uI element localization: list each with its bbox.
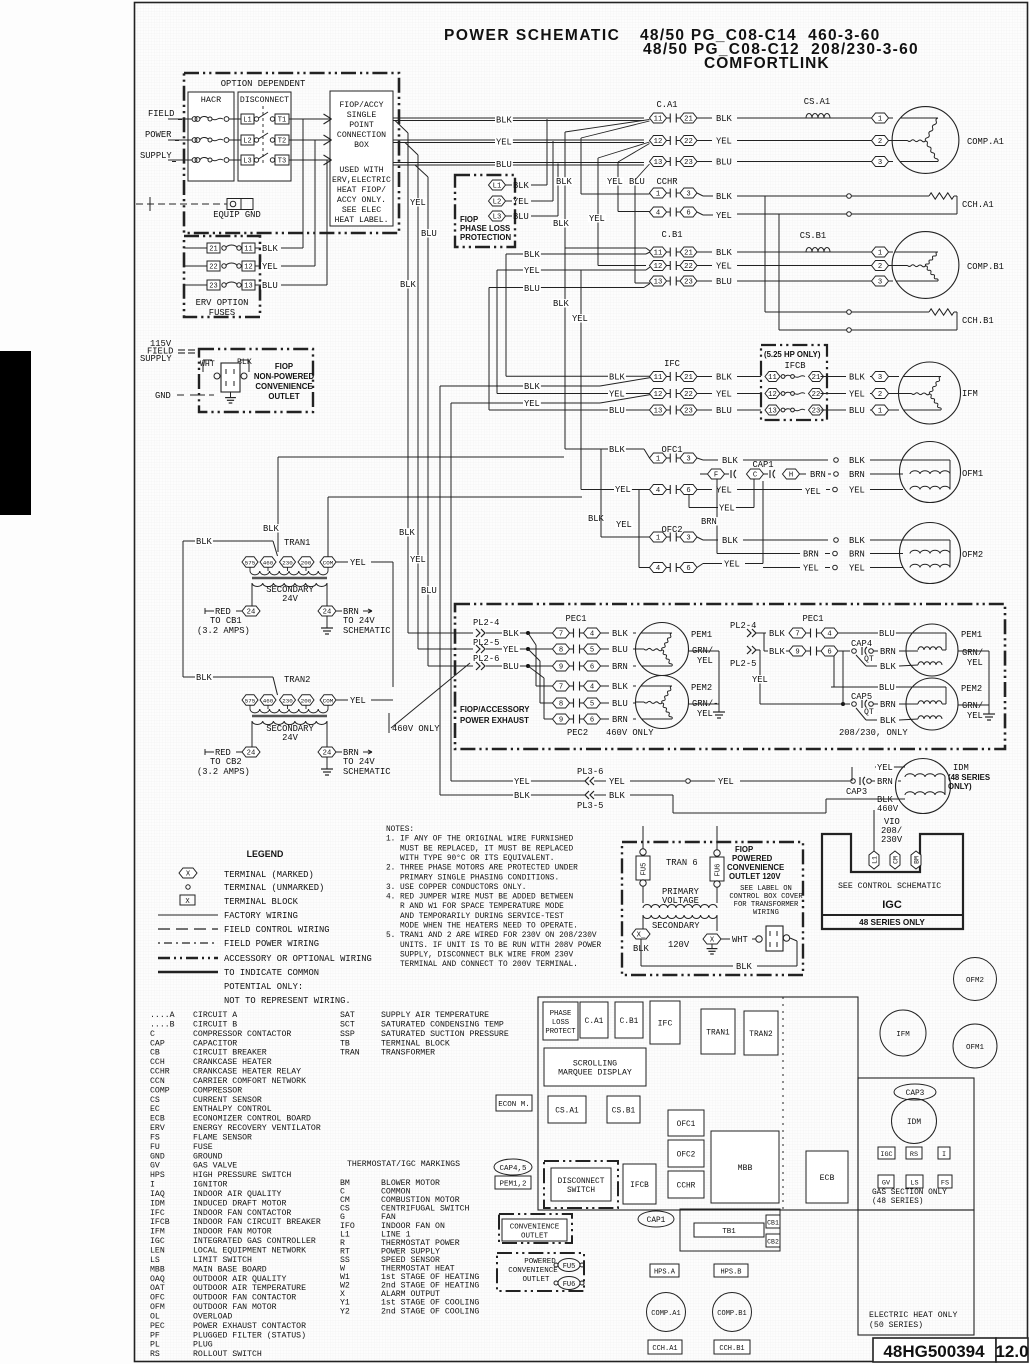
svg-text:6: 6 — [686, 210, 690, 218]
svg-text:CONVENIENCE: CONVENIENCE — [255, 382, 312, 391]
svg-text:BLK: BLK — [722, 536, 739, 546]
svg-text:CAP3: CAP3 — [846, 787, 867, 797]
wire BLU main — [393, 162, 644, 164]
wire BLK 460 tap feed — [278, 456, 564, 458]
svg-text:PLUGGED FILTER (STATUS): PLUGGED FILTER (STATUS) — [193, 1330, 306, 1340]
svg-text:WHT: WHT — [732, 935, 748, 945]
svg-text:T3: T3 — [278, 158, 286, 166]
wire YEL from TRAN2 COM — [336, 699, 349, 701]
svg-text:C.A1: C.A1 — [656, 100, 677, 110]
IFCB breaker box — [761, 345, 827, 420]
svg-text:PL2-4: PL2-4 — [473, 618, 499, 628]
scrolling marquee display — [544, 1048, 646, 1086]
svg-text:CCHR: CCHR — [656, 177, 678, 187]
wire BLK 460V jog to IDM — [672, 795, 674, 813]
IFM circle layout — [880, 1010, 926, 1056]
svg-text:ENTHALPY CONTROL: ENTHALPY CONTROL — [193, 1105, 272, 1114]
title block — [873, 1338, 996, 1362]
svg-text:TO INDICATE COMMON: TO INDICATE COMMON — [224, 968, 319, 978]
svg-text:FIELD POWER WIRING: FIELD POWER WIRING — [224, 939, 319, 949]
svg-text:SEE LABEL ON: SEE LABEL ON — [740, 885, 792, 893]
svg-text:24V: 24V — [282, 733, 299, 743]
svg-text:YEL: YEL — [350, 558, 366, 568]
OFC2 contact 4/6 — [650, 563, 667, 573]
HPS.B box — [714, 1264, 748, 1277]
wire YEL drop to PL2-5 — [405, 143, 418, 156]
svg-text:TRAN2: TRAN2 — [284, 675, 310, 685]
svg-text:BRN: BRN — [880, 647, 896, 657]
arrowheads at connection box — [324, 114, 332, 119]
svg-text:YEL: YEL — [524, 266, 540, 276]
svg-text:ECON M.: ECON M. — [498, 1101, 530, 1109]
wire YEL CCHR vertical v618 — [617, 162, 619, 212]
svg-text:BLU: BLU — [879, 683, 895, 693]
svg-text:C.B1: C.B1 — [661, 230, 682, 240]
svg-text:L3: L3 — [493, 214, 502, 222]
wires T to ERV fuses — [302, 119, 304, 248]
FIOP/ACCY single point connection box — [330, 91, 393, 226]
svg-text:22: 22 — [684, 391, 693, 399]
svg-text:INDOOR FAN MOTOR: INDOOR FAN MOTOR — [193, 1228, 272, 1237]
svg-text:OUTLET 120V: OUTLET 120V — [729, 872, 781, 881]
svg-text:TO 24V: TO 24V — [343, 616, 375, 626]
svg-text:3: 3 — [878, 279, 882, 287]
svg-text:COM: COM — [323, 560, 334, 567]
svg-text:YEL: YEL — [503, 645, 519, 655]
svg-text:GND: GND — [150, 1152, 165, 1161]
wire YEL from TRAN1 COM — [336, 561, 349, 563]
svg-text:L2: L2 — [493, 199, 502, 207]
power exhaust motor PEM2 460V — [636, 676, 689, 729]
svg-text:6: 6 — [590, 717, 594, 725]
svg-text:CS: CS — [150, 1096, 160, 1105]
svg-text:BLK: BLK — [514, 791, 531, 801]
crankcase heater CCH.A1 — [697, 193, 703, 196]
svg-text:OUTDOOR FAN MOTOR: OUTDOOR FAN MOTOR — [193, 1303, 277, 1312]
svg-text:BRN: BRN — [849, 470, 865, 480]
svg-text:SCROLLING: SCROLLING — [573, 1060, 617, 1069]
svg-text:13: 13 — [768, 408, 777, 416]
svg-text:IFM: IFM — [150, 1228, 165, 1237]
svg-text:THERMOSTAT/IGC MARKINGS: THERMOSTAT/IGC MARKINGS — [347, 1159, 460, 1169]
C.B1 layout box — [615, 1002, 643, 1038]
svg-text:6: 6 — [827, 649, 831, 657]
wire BLK to TRAN2 — [183, 676, 273, 678]
svg-text:BLK: BLK — [399, 528, 416, 538]
svg-text:BLK: BLK — [553, 219, 570, 229]
svg-text:BRN: BRN — [877, 777, 893, 787]
induced draft motor IDM — [896, 759, 951, 814]
PL2 plug labels left — [472, 618, 500, 626]
svg-text:BLK: BLK — [262, 244, 279, 254]
svg-text:OFM2: OFM2 — [962, 550, 983, 560]
svg-text:IDM: IDM — [953, 763, 969, 773]
svg-text:INDOOR AIR QUALITY: INDOOR AIR QUALITY — [193, 1190, 282, 1199]
TRAN2 24V terminals — [205, 751, 214, 753]
wire BLK from above to TRAN1 — [277, 457, 279, 552]
OFM2 BRN wire — [717, 553, 800, 555]
svg-text:YEL: YEL — [967, 658, 983, 668]
HPS.A box — [650, 1264, 679, 1277]
svg-text:OFC1: OFC1 — [661, 445, 682, 455]
wire YEL main — [393, 139, 644, 141]
svg-text:BLU: BLU — [496, 160, 512, 170]
svg-text:BLK: BLK — [196, 673, 213, 683]
svg-text:TO 24V: TO 24V — [343, 757, 375, 767]
svg-text:ECB: ECB — [150, 1115, 165, 1124]
svg-text:PHASE: PHASE — [550, 1010, 572, 1018]
svg-text:POWER EXHAUST CONTACTOR: POWER EXHAUST CONTACTOR — [193, 1322, 306, 1331]
svg-text:CAP: CAP — [150, 1039, 165, 1048]
wire BLK PL3-5 — [440, 794, 585, 796]
gas section box — [858, 1078, 974, 1210]
svg-text:IFC: IFC — [664, 359, 680, 369]
svg-text:QT: QT — [864, 708, 874, 717]
terminal 1 2 3 comp A1 — [872, 113, 889, 123]
OFM1 circle layout — [953, 1024, 997, 1068]
svg-text:48HG500394: 48HG500394 — [883, 1342, 985, 1361]
svg-text:FU6: FU6 — [563, 1281, 576, 1289]
OFC1 layout box — [668, 1110, 704, 1136]
svg-text:BM: BM — [913, 856, 920, 864]
terminal 1 2 3 comp B1 — [872, 247, 889, 257]
svg-text:NOT TO REPRESENT WIRING.: NOT TO REPRESENT WIRING. — [224, 996, 351, 1006]
svg-text:COMP.B1: COMP.B1 — [717, 1310, 746, 1318]
svg-text:H: H — [789, 472, 793, 480]
svg-text:OUTDOOR FAN CONTACTOR: OUTDOOR FAN CONTACTOR — [193, 1294, 296, 1303]
svg-text:GV: GV — [882, 1180, 891, 1188]
svg-text:21: 21 — [684, 374, 693, 382]
svg-text:OFM: OFM — [150, 1303, 165, 1312]
equip gnd — [136, 203, 227, 205]
svg-text:23: 23 — [684, 408, 693, 416]
svg-text:8: 8 — [559, 701, 563, 709]
svg-text:YEL: YEL — [697, 656, 713, 666]
svg-text:BLU: BLU — [421, 229, 437, 239]
PEC2 drop wires — [528, 633, 536, 645]
svg-text:FIOP: FIOP — [275, 362, 293, 371]
svg-text:FS: FS — [941, 1180, 949, 1188]
svg-text:ECONOMIZER CONTROL BOARD: ECONOMIZER CONTROL BOARD — [193, 1115, 311, 1124]
svg-text:YEL: YEL — [615, 485, 631, 495]
svg-text:120V: 120V — [668, 940, 690, 950]
svg-text:OFC2: OFC2 — [677, 1152, 696, 1160]
svg-text:24V: 24V — [282, 594, 299, 604]
IFC contact 12/22 — [608, 390, 626, 398]
svg-text:24: 24 — [323, 609, 332, 617]
ERV fuse 23-13 — [184, 284, 207, 286]
svg-text:BLK: BLK — [716, 114, 733, 124]
ERV fuse 22-12 — [184, 265, 207, 267]
svg-text:CCH.A1: CCH.A1 — [652, 1345, 677, 1353]
svg-text:OFC: OFC — [150, 1294, 165, 1303]
FS small box — [938, 1175, 952, 1188]
svg-text:BLU: BLU — [716, 158, 732, 168]
terminal X_ — [632, 929, 650, 939]
svg-text:YEL: YEL — [849, 390, 865, 400]
wire BLK outlet return — [640, 939, 642, 966]
DISCONNECT box — [238, 92, 291, 181]
svg-text:PHASE LOSS: PHASE LOSS — [460, 224, 510, 233]
IFCB pole 11/21 — [765, 372, 780, 382]
IDM circle layout — [892, 1099, 937, 1144]
svg-text:2: 2 — [878, 263, 882, 271]
svg-text:23: 23 — [812, 408, 821, 416]
svg-text:BLK: BLK — [769, 647, 786, 657]
svg-text:CCH.B1: CCH.B1 — [719, 1345, 744, 1353]
supply row L3/T3 — [168, 159, 192, 161]
svg-text:YEL: YEL — [262, 262, 278, 272]
svg-text:SUPPLY AIR TEMPERATURE: SUPPLY AIR TEMPERATURE — [381, 1011, 489, 1020]
legend field control wiring — [158, 928, 218, 930]
svg-text:POWER SCHEMATIC: POWER SCHEMATIC — [444, 27, 620, 44]
svg-text:IFM: IFM — [896, 1031, 910, 1039]
svg-text:11: 11 — [654, 116, 663, 124]
svg-text:PEC1: PEC1 — [565, 614, 586, 624]
svg-text:LOCAL EQUIPMENT NETWORK: LOCAL EQUIPMENT NETWORK — [193, 1247, 306, 1256]
svg-text:C.B1: C.B1 — [620, 1018, 639, 1026]
svg-text:ERV: ERV — [150, 1124, 165, 1133]
supply row L1/T1 — [168, 118, 192, 120]
svg-text:CIRCUIT B: CIRCUIT B — [193, 1020, 237, 1029]
svg-text:EC: EC — [150, 1105, 160, 1114]
svg-text:CAP1: CAP1 — [647, 1217, 666, 1225]
svg-text:BLK: BLK — [263, 524, 280, 534]
svg-text:3: 3 — [686, 191, 690, 199]
svg-text:BLK: BLK — [769, 629, 786, 639]
svg-text:SCHEMATIC: SCHEMATIC — [343, 767, 391, 777]
wire YEL vertical v598 — [597, 158, 599, 266]
svg-text:22: 22 — [209, 264, 217, 272]
FU6 oval layout — [558, 1277, 580, 1290]
svg-text:GRN/: GRN/ — [962, 648, 983, 658]
svg-text:COMPRESSOR: COMPRESSOR — [193, 1086, 242, 1095]
svg-text:SUPPLY: SUPPLY — [140, 151, 172, 161]
svg-text:X: X — [186, 871, 191, 879]
svg-text:C.A1: C.A1 — [585, 1018, 604, 1026]
CAP1 jog wires — [688, 495, 690, 508]
IFCB layout box — [623, 1164, 656, 1204]
svg-text:7: 7 — [559, 631, 563, 639]
svg-text:TRAN: TRAN — [340, 1049, 360, 1058]
svg-text:CARRIER COMFORT NETWORK: CARRIER COMFORT NETWORK — [193, 1077, 306, 1086]
svg-text:ELECTRIC HEAT ONLY: ELECTRIC HEAT ONLY — [869, 1311, 958, 1320]
svg-text:4: 4 — [590, 684, 594, 692]
svg-text:FIOP: FIOP — [460, 215, 478, 224]
svg-text:IFCB: IFCB — [630, 1182, 649, 1190]
svg-text:3: 3 — [686, 456, 690, 464]
svg-text:24: 24 — [323, 750, 332, 758]
svg-text:YEL: YEL — [724, 560, 740, 570]
svg-text:BLU: BLU — [879, 629, 895, 639]
svg-text:PLUG: PLUG — [193, 1341, 213, 1350]
svg-text:YEL: YEL — [609, 390, 625, 400]
svg-text:YEL: YEL — [718, 777, 734, 787]
svg-text:YEL: YEL — [719, 504, 735, 514]
svg-text:MODE WHEN THE HEATERS NEED TO: MODE WHEN THE HEATERS NEED TO OPERATE. — [386, 923, 578, 931]
svg-text:PEM2: PEM2 — [691, 683, 712, 693]
svg-text:TERMINAL BLOCK: TERMINAL BLOCK — [381, 1039, 450, 1048]
svg-text:BLU: BLU — [503, 662, 519, 672]
svg-text:BLK: BLK — [612, 682, 629, 692]
svg-text:CS.A1: CS.A1 — [555, 1108, 579, 1116]
svg-text:POWERED: POWERED — [524, 1258, 556, 1266]
svg-text:GAS VALVE: GAS VALVE — [193, 1162, 237, 1171]
legend terminal marked — [179, 868, 197, 878]
svg-text:CAP4,5: CAP4,5 — [499, 1165, 527, 1173]
svg-text:TERMINAL BLOCK: TERMINAL BLOCK — [224, 897, 299, 907]
svg-text:PROTECT: PROTECT — [545, 1028, 576, 1036]
svg-text:TERMINAL (MARKED): TERMINAL (MARKED) — [224, 870, 314, 880]
C.A1 contact 12/22 — [650, 136, 667, 146]
svg-text:YEL: YEL — [803, 564, 819, 574]
svg-text:BLU: BLU — [513, 212, 529, 222]
CCHR layout box — [668, 1171, 704, 1198]
svg-text:POWERED: POWERED — [732, 854, 773, 863]
svg-text:SUPPLY, DISCONNECT BLK WIRE FR: SUPPLY, DISCONNECT BLK WIRE FROM 230V — [386, 951, 573, 959]
TRAN2 layout box — [744, 1011, 778, 1055]
svg-text:208/230, ONLY: 208/230, ONLY — [839, 728, 908, 738]
CCH.B1 box — [714, 1340, 750, 1354]
TRAN6 primary coil — [642, 886, 644, 903]
svg-text:YEL: YEL — [410, 198, 426, 208]
svg-text:FOR TRANSFORMER: FOR TRANSFORMER — [734, 901, 799, 909]
power exhaust motor PEM1 208/230 — [906, 624, 958, 676]
wire BLU vertical v635 — [634, 180, 636, 283]
svg-text:3: 3 — [878, 374, 882, 382]
svg-text:BLU: BLU — [421, 586, 437, 596]
svg-text:BLK: BLK — [716, 192, 733, 202]
binder tab — [0, 351, 31, 515]
svg-text:FIELD CONTROL WIRING: FIELD CONTROL WIRING — [224, 925, 330, 935]
svg-text:SSP: SSP — [340, 1030, 355, 1039]
svg-text:9: 9 — [795, 649, 799, 657]
svg-text:BLU: BLU — [716, 277, 732, 287]
svg-text:GROUND: GROUND — [193, 1152, 223, 1161]
svg-text:2: 2 — [878, 391, 882, 399]
svg-text:1: 1 — [878, 116, 882, 124]
svg-text:SATURATED CONDENSING TEMP: SATURATED CONDENSING TEMP — [381, 1020, 504, 1029]
electric heat box — [858, 1210, 974, 1335]
svg-text:L1: L1 — [493, 183, 502, 191]
svg-text:T2: T2 — [278, 138, 286, 146]
svg-text:8: 8 — [559, 647, 563, 655]
svg-text:MAIN BASE BOARD: MAIN BASE BOARD — [193, 1265, 267, 1274]
OFC2 layout box — [668, 1140, 704, 1167]
svg-text:OPTION DEPENDENT: OPTION DEPENDENT — [221, 79, 305, 89]
svg-text:YEL: YEL — [849, 564, 865, 574]
svg-text:UNITS. IF UNIT IS TO BE RUN WI: UNITS. IF UNIT IS TO BE RUN WITH 208V PO… — [386, 942, 602, 950]
svg-text:BLU: BLU — [262, 281, 278, 291]
svg-text:IAQ: IAQ — [150, 1190, 165, 1199]
wire BLK to PL3-5 — [439, 386, 441, 795]
svg-text:TB1: TB1 — [722, 1228, 736, 1236]
svg-text:SAT: SAT — [340, 1011, 355, 1020]
svg-text:BLK: BLK — [609, 791, 626, 801]
svg-text:YEL: YEL — [716, 486, 732, 496]
svg-text:BLK: BLK — [849, 536, 866, 546]
svg-text:IDM: IDM — [150, 1199, 165, 1208]
svg-text:CS.B1: CS.B1 — [612, 1108, 636, 1116]
svg-text:OUTLET: OUTLET — [521, 1233, 549, 1241]
svg-text:BLK: BLK — [849, 456, 866, 466]
svg-text:POWER EXHAUST: POWER EXHAUST — [460, 716, 529, 725]
460V ONLY callout — [388, 713, 390, 733]
svg-text:INDOOR FAN CONTACTOR: INDOOR FAN CONTACTOR — [193, 1209, 291, 1218]
svg-text:12: 12 — [244, 264, 252, 272]
svg-text:ROLLOUT SWITCH: ROLLOUT SWITCH — [193, 1350, 262, 1359]
ERV option fuses box — [184, 236, 260, 317]
svg-text:OFM2: OFM2 — [966, 977, 984, 985]
svg-text:PL2-5: PL2-5 — [730, 659, 756, 669]
svg-text:24: 24 — [247, 609, 256, 617]
svg-text:PF: PF — [150, 1331, 160, 1340]
svg-text:CCH.B1: CCH.B1 — [962, 316, 994, 326]
svg-text:230: 230 — [282, 698, 293, 705]
svg-text:IGNITOR: IGNITOR — [193, 1181, 227, 1190]
svg-text:RS: RS — [150, 1350, 160, 1359]
svg-text:21: 21 — [812, 374, 821, 382]
svg-text:I: I — [942, 1151, 946, 1159]
svg-text:BOX: BOX — [354, 141, 369, 150]
svg-text:PEC1: PEC1 — [802, 614, 823, 624]
svg-text:X: X — [710, 937, 715, 945]
svg-text:BLK: BLK — [553, 299, 570, 309]
svg-text:CB1: CB1 — [767, 1220, 779, 1227]
svg-text:5: 5 — [590, 701, 594, 709]
svg-text:BRN: BRN — [701, 517, 717, 527]
OFM2 circle layout — [954, 958, 997, 1001]
OFC1 contact 4/6 — [650, 485, 667, 495]
svg-text:C: C — [753, 472, 758, 480]
svg-text:FLAME SENSOR: FLAME SENSOR — [193, 1133, 252, 1142]
C.B1 contact 12/22 — [650, 261, 667, 271]
crankcase heater CCH.B1 — [765, 311, 929, 313]
svg-text:21: 21 — [209, 246, 217, 254]
svg-text:YEL: YEL — [513, 197, 529, 207]
wire BLK main — [393, 117, 644, 119]
disconnect switch box — [544, 1161, 618, 1208]
svg-text:(3.2 AMPS): (3.2 AMPS) — [197, 767, 250, 777]
svg-text:BLK: BLK — [736, 962, 753, 972]
svg-text:BLK: BLK — [612, 629, 629, 639]
svg-text:YEL: YEL — [410, 555, 426, 565]
svg-text:FS: FS — [150, 1133, 160, 1142]
svg-text:CRANKCASE HEATER RELAY: CRANKCASE HEATER RELAY — [193, 1068, 301, 1077]
svg-text:OFC1: OFC1 — [677, 1121, 696, 1129]
svg-text:CAPACITOR: CAPACITOR — [193, 1039, 237, 1048]
svg-text:TRAN2: TRAN2 — [749, 1031, 773, 1039]
svg-text:HIGH PRESSURE SWITCH: HIGH PRESSURE SWITCH — [193, 1171, 291, 1180]
capacitor CAP3 — [845, 787, 868, 795]
svg-text:PEC: PEC — [150, 1322, 165, 1331]
svg-text:YEL: YEL — [697, 709, 713, 719]
svg-text:YEL: YEL — [616, 520, 632, 530]
svg-text:21: 21 — [684, 116, 693, 124]
FU5 oval layout — [558, 1259, 580, 1272]
svg-text:OUTLET: OUTLET — [522, 1276, 550, 1284]
svg-text:4: 4 — [656, 565, 660, 573]
C.A1 contact 13/23 — [650, 157, 667, 167]
ECON M box — [496, 1095, 532, 1111]
svg-text:4: 4 — [656, 487, 660, 495]
svg-text:MBB: MBB — [150, 1265, 165, 1274]
svg-text:YEL: YEL — [716, 390, 732, 400]
svg-text:ECB: ECB — [820, 1174, 835, 1183]
svg-text:YEL: YEL — [589, 214, 605, 224]
C.B1 contact 13/23 — [650, 276, 667, 286]
svg-text:CONTROL BOX COVER: CONTROL BOX COVER — [729, 893, 803, 901]
